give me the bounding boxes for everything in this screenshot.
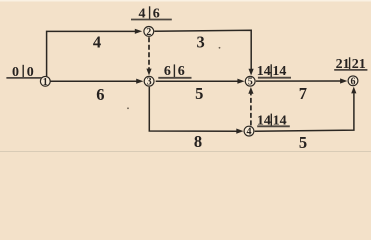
wire 2-5 (right then down): [154, 30, 251, 70]
dummy wire 2-3 (dashed): [148, 37, 150, 70]
arrowhead into node 6 bottom: [351, 87, 356, 94]
svg-text:8: 8: [194, 132, 202, 151]
wire 4-6 (right then up): [255, 93, 354, 131]
svg-text:5: 5: [248, 77, 253, 88]
node 5: [245, 76, 255, 86]
wire 5-6: [256, 80, 342, 82]
svg-text:2: 2: [146, 27, 151, 38]
svg-text:4: 4: [93, 32, 101, 51]
scan speck 2: [127, 107, 129, 109]
svg-text:5: 5: [299, 133, 307, 152]
wire 1-2 (up then right): [47, 31, 137, 76]
arrowhead into node 6: [340, 78, 347, 83]
wire 3-5: [156, 80, 240, 82]
svg-text:6: 6: [351, 76, 356, 87]
svg-text:1: 1: [43, 77, 48, 88]
node 3: [144, 76, 154, 86]
wire 3-4 (down then right): [149, 87, 238, 131]
node 2: [144, 27, 154, 37]
arrowhead into node 4: [236, 129, 243, 134]
node 4: [244, 126, 254, 136]
svg-text:4: 4: [247, 127, 252, 138]
arrowhead into node 2: [135, 29, 142, 34]
svg-text:5: 5: [195, 84, 203, 103]
svg-text:3: 3: [196, 33, 204, 52]
svg-text:7: 7: [299, 84, 307, 103]
node 6: [348, 76, 358, 86]
arrowhead into node 5 top: [249, 69, 254, 76]
arrowhead into node 3 top: [146, 69, 151, 76]
arrowhead into node 3: [136, 79, 143, 84]
svg-text:3: 3: [147, 77, 152, 88]
arrowhead into node 5 bottom: [248, 87, 253, 94]
wire 1-3: [50, 80, 138, 82]
scan speck 1: [219, 47, 221, 49]
dummy wire 4-5 (dashed): [250, 93, 252, 126]
arrowhead into node 5: [237, 79, 244, 84]
node 1: [40, 76, 50, 86]
svg-text:6: 6: [96, 85, 104, 104]
